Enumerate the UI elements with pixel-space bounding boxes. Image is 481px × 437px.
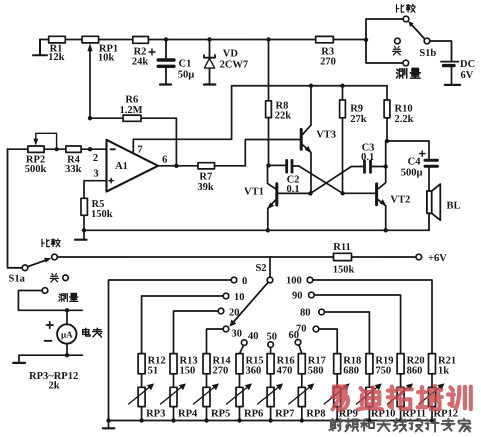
svg-text:680: 680 <box>343 366 359 377</box>
wire R17 to RP8 <box>301 374 303 388</box>
svg-text:40: 40 <box>248 331 259 342</box>
potentiometer RP8 <box>298 387 305 406</box>
resistor R13 <box>170 354 177 374</box>
node RP12 rail junction <box>430 418 434 422</box>
svg-text:90: 90 <box>292 291 303 302</box>
wire R16 to RP7 <box>270 374 272 388</box>
svg-text:50: 50 <box>267 332 278 343</box>
wire pin7 supply net <box>133 86 387 152</box>
node RP7 rail junction <box>268 418 272 422</box>
contact 50 <box>268 342 274 348</box>
resistor R21 <box>429 354 436 374</box>
contact off S1b <box>395 38 401 44</box>
resistor R5 <box>81 198 87 215</box>
svg-text:S2: S2 <box>255 263 266 274</box>
svg-text:0.1: 0.1 <box>361 152 374 163</box>
potentiometer RP10 <box>366 387 373 406</box>
label off (top) <box>393 47 401 55</box>
resistor R12 <box>138 354 145 374</box>
node meter bottom junction <box>65 353 69 357</box>
svg-text:6: 6 <box>162 155 167 166</box>
resistor R16 <box>267 354 274 374</box>
wire RP12 to rail <box>431 407 433 421</box>
node rail left end <box>106 418 110 422</box>
speaker BL <box>427 184 440 230</box>
wire RP7 to rail <box>270 407 272 421</box>
watermark gray slogan <box>329 419 470 432</box>
contact 70 <box>313 326 319 332</box>
node RP4 rail junction <box>171 418 175 422</box>
svg-text:S1b: S1b <box>419 48 436 59</box>
label measure (S1a) <box>59 293 78 301</box>
svg-text:RP4: RP4 <box>178 409 198 420</box>
node R6 left junction <box>88 116 92 120</box>
capacitor C2 <box>269 160 299 172</box>
potentiometer RP6 <box>236 387 243 406</box>
wire contact 90 to R20 <box>314 295 400 354</box>
svg-text:500k: 500k <box>25 164 47 175</box>
wire RP3 to rail <box>141 407 143 421</box>
wire contact 20 to R13 <box>174 311 219 354</box>
svg-text:DC: DC <box>460 59 475 70</box>
resistor R3 <box>316 36 334 42</box>
ground bottom rail <box>103 421 115 429</box>
svg-text:6V: 6V <box>461 70 474 81</box>
svg-text:VD: VD <box>223 49 239 60</box>
meter uA <box>57 310 76 355</box>
resistor R6 <box>123 115 141 121</box>
node VT2 base junction <box>341 191 345 195</box>
svg-text:860: 860 <box>407 366 423 377</box>
wire compare bus to +6V <box>57 256 416 258</box>
ground top-left <box>33 40 47 56</box>
contact 20 <box>218 308 224 314</box>
svg-text:3: 3 <box>93 169 98 180</box>
node pin2 junction <box>88 147 92 151</box>
node VT1 emitter junction <box>266 228 270 232</box>
wire R10 branch <box>386 86 388 141</box>
wire S2 stem <box>269 257 271 277</box>
wire contact 40 to R15 <box>240 345 244 353</box>
contact 10 <box>223 293 229 299</box>
node VT1 base junction <box>308 191 312 195</box>
svg-text:RP3: RP3 <box>146 409 165 420</box>
switch S2 common contact <box>267 277 273 283</box>
switch S2 arm <box>234 282 268 321</box>
watermark red <box>332 386 470 410</box>
label meter (dianbiao) <box>83 328 102 337</box>
node RP8 rail junction <box>300 418 304 422</box>
wire R20 to RP11 <box>400 374 402 388</box>
switch S1b arm <box>411 24 425 39</box>
wire to S1b compare contact <box>366 19 403 40</box>
wire RP8 to rail <box>301 407 303 421</box>
svg-text:39k: 39k <box>197 182 214 193</box>
svg-text:+6V: +6V <box>428 253 447 264</box>
svg-text:1.2M: 1.2M <box>119 105 142 116</box>
ground below R5 <box>75 239 87 241</box>
svg-text:470: 470 <box>277 366 293 377</box>
wire bottom ground rail <box>109 420 433 422</box>
resistor R11 <box>334 253 352 260</box>
svg-text:C4: C4 <box>408 157 422 168</box>
svg-text:S1a: S1a <box>9 274 26 285</box>
potentiometer RP4 <box>170 387 177 406</box>
wire contact 30 to R14 <box>207 329 224 354</box>
wire top supply rail <box>40 39 366 41</box>
transistor VT3 <box>301 86 311 194</box>
svg-text:2CW7: 2CW7 <box>220 60 249 71</box>
node feedback junction <box>174 164 178 168</box>
node R9 top junction <box>340 84 344 88</box>
svg-text:500µ: 500µ <box>401 168 423 179</box>
node meter top junction <box>65 308 69 312</box>
resistor R19 <box>366 354 373 374</box>
potentiometer RP11 <box>397 387 404 406</box>
resistor R1 <box>49 36 66 43</box>
contact 40 <box>241 340 247 346</box>
node VT2 emitter junction <box>384 228 388 232</box>
capacitor C1 electrolytic <box>158 40 174 85</box>
svg-text:RP7: RP7 <box>275 409 294 420</box>
svg-text:50µ: 50µ <box>178 70 195 81</box>
svg-text:R7: R7 <box>199 172 212 183</box>
capacitor C4 electrolytic <box>425 160 437 191</box>
svg-text:A1: A1 <box>115 161 128 172</box>
svg-text:750: 750 <box>375 366 391 377</box>
wire R19 to RP10 <box>368 374 370 388</box>
node RP11 rail junction <box>398 418 402 422</box>
contact 90 <box>309 292 315 298</box>
wire multivibrator emitter rail <box>84 229 429 231</box>
wire R8 branch <box>268 40 270 166</box>
zener diode VD <box>204 40 215 85</box>
node RP3 rail junction <box>139 418 143 422</box>
wire R9 branch <box>342 86 344 194</box>
potentiometer RP2 <box>28 146 44 152</box>
potentiometer RP12 <box>429 387 436 406</box>
node R10 bottom junction <box>385 139 389 143</box>
svg-text:150: 150 <box>180 366 196 377</box>
node RP5 rail junction <box>204 418 208 422</box>
wire RP5 to rail <box>206 407 208 421</box>
svg-text:VT1: VT1 <box>244 186 264 197</box>
contact compare S1a <box>52 254 58 260</box>
svg-text:150k: 150k <box>333 265 355 276</box>
contact 30 <box>223 326 229 332</box>
wire R21 to RP12 <box>431 374 433 388</box>
wire R10 junction to C4 <box>387 141 429 159</box>
svg-text:10k: 10k <box>98 52 115 63</box>
label compare (S1a) <box>42 239 60 247</box>
wire RP10 to rail <box>368 407 370 421</box>
svg-text:270: 270 <box>320 57 336 68</box>
node S1b junction <box>364 38 368 42</box>
op-amp A1 <box>107 140 159 192</box>
svg-text:10: 10 <box>234 292 245 303</box>
svg-text:BL: BL <box>447 201 461 212</box>
resistor R2 <box>133 37 149 44</box>
wire contact 80 to R19 <box>324 312 369 354</box>
wire R7 to VT3 base <box>245 140 299 166</box>
wire contact 70 to R18 <box>319 329 337 354</box>
svg-text:30: 30 <box>232 329 243 340</box>
svg-text:2.2k: 2.2k <box>395 114 414 125</box>
potentiometer RP7 <box>267 387 274 406</box>
node C1 junction <box>164 37 168 41</box>
potentiometer RP9 <box>334 387 341 406</box>
svg-text:27k: 27k <box>350 114 367 125</box>
resistor R9 <box>340 100 346 118</box>
terminal +6V <box>416 254 422 260</box>
wire contact 100 to R21 <box>313 280 432 354</box>
contact 60 <box>295 340 301 346</box>
svg-text:33k: 33k <box>65 164 82 175</box>
wire R12 to RP3 <box>141 374 143 388</box>
ground meter <box>13 355 25 363</box>
svg-text:22k: 22k <box>275 111 292 122</box>
svg-text:2k: 2k <box>48 381 59 392</box>
wire output net pin6 <box>158 165 245 167</box>
wire contact 60 to R17 <box>299 345 302 354</box>
wire S1b to battery <box>430 41 452 61</box>
wire RP11 to rail <box>400 407 402 421</box>
node RP6 rail junction <box>237 418 241 422</box>
node R8 top junction <box>266 37 270 41</box>
wire inverting input net (pin2) <box>8 148 107 150</box>
resistor R4 <box>66 146 81 152</box>
svg-text:R10: R10 <box>395 104 413 115</box>
svg-text:C1: C1 <box>179 59 192 70</box>
svg-text:70: 70 <box>296 324 307 335</box>
svg-text:1k: 1k <box>438 366 449 377</box>
wire contact 10 to R12 <box>142 296 224 354</box>
resistor R15 <box>236 354 243 374</box>
resistor R10 <box>384 100 390 118</box>
wire R13 to RP4 <box>173 374 175 388</box>
resistor R7 <box>198 163 215 169</box>
contact 80 <box>319 309 325 315</box>
node VD junction <box>207 37 211 41</box>
node C3 VT2 collector junction <box>384 164 388 168</box>
svg-text:RP5: RP5 <box>211 409 230 420</box>
resistor R20 <box>397 354 404 374</box>
svg-text:RP6: RP6 <box>244 409 263 420</box>
contact off S1a <box>63 275 69 281</box>
svg-text:VT3: VT3 <box>316 130 336 141</box>
battery DC 6V <box>441 62 460 85</box>
contact compare S1b <box>403 16 409 22</box>
wire cross-couple C2 to VT2 base <box>299 166 343 193</box>
potentiometer RP3 <box>138 387 145 406</box>
svg-text:360: 360 <box>246 366 262 377</box>
svg-text:80: 80 <box>300 308 311 319</box>
resistor R14 <box>203 354 210 374</box>
label measure (top) <box>396 68 420 78</box>
svg-text:51: 51 <box>148 366 159 377</box>
label off (S1a) <box>50 274 58 282</box>
node VT1 collector junction <box>266 163 270 167</box>
resistor R8 <box>266 101 272 118</box>
wire cross-couple C3 to VT1 base <box>310 167 351 194</box>
capacitor C3 <box>351 161 385 172</box>
switch S1a arm <box>28 261 45 267</box>
node R5 rail junction <box>82 228 86 232</box>
switch S1a common contact <box>22 265 28 271</box>
wire contact 50 to R16 <box>270 347 272 353</box>
wire contact 0 to rail <box>109 280 232 421</box>
svg-text:150k: 150k <box>91 209 113 220</box>
common contact S1b <box>424 38 430 44</box>
contact measure S1b <box>403 60 409 66</box>
svg-text:R6: R6 <box>125 95 138 106</box>
svg-text:100: 100 <box>286 276 302 287</box>
svg-text:0: 0 <box>242 276 247 287</box>
svg-text:2: 2 <box>93 153 98 164</box>
contact 0 <box>231 277 237 283</box>
node RP10 rail junction <box>367 418 371 422</box>
transistor VT2 <box>343 141 386 230</box>
wire pin3 net to R5 <box>84 181 107 199</box>
resistor R17 <box>298 354 305 374</box>
wire left column to S1a <box>8 149 23 268</box>
svg-text:µA: µA <box>61 330 73 340</box>
svg-text:7: 7 <box>137 145 142 156</box>
wire R6 feedback net <box>90 118 176 166</box>
wire RP4 to rail <box>173 407 175 421</box>
node VT3 collector junction <box>309 84 313 88</box>
node RP9 rail junction <box>335 418 339 422</box>
wire RP6 to rail <box>239 407 241 421</box>
svg-text:RP8: RP8 <box>306 409 325 420</box>
potentiometer RP1 <box>82 36 99 43</box>
potentiometer RP5 <box>203 387 210 406</box>
wire R15 to RP6 <box>239 374 241 388</box>
svg-text:VT2: VT2 <box>390 195 410 206</box>
wire R14 to RP5 <box>206 374 208 388</box>
wire meter bottom <box>19 354 82 356</box>
svg-text:20: 20 <box>229 308 240 319</box>
svg-text:12k: 12k <box>48 52 65 63</box>
wire RP9 to rail <box>336 407 338 421</box>
contact measure S1a <box>42 288 48 294</box>
svg-text:24k: 24k <box>132 57 149 68</box>
transistor VT1 <box>268 165 311 230</box>
resistor R18 <box>334 354 341 374</box>
wire measure contact to meter <box>18 291 82 311</box>
svg-text:580: 580 <box>308 366 324 377</box>
svg-text:R9: R9 <box>350 104 363 115</box>
contact 100 <box>307 277 313 283</box>
wire to S1b measure contact <box>366 40 403 63</box>
svg-text:270: 270 <box>213 366 229 377</box>
svg-text:R11: R11 <box>333 242 351 253</box>
label compare (top) <box>397 4 416 12</box>
wire R18 to RP9 <box>336 374 338 388</box>
